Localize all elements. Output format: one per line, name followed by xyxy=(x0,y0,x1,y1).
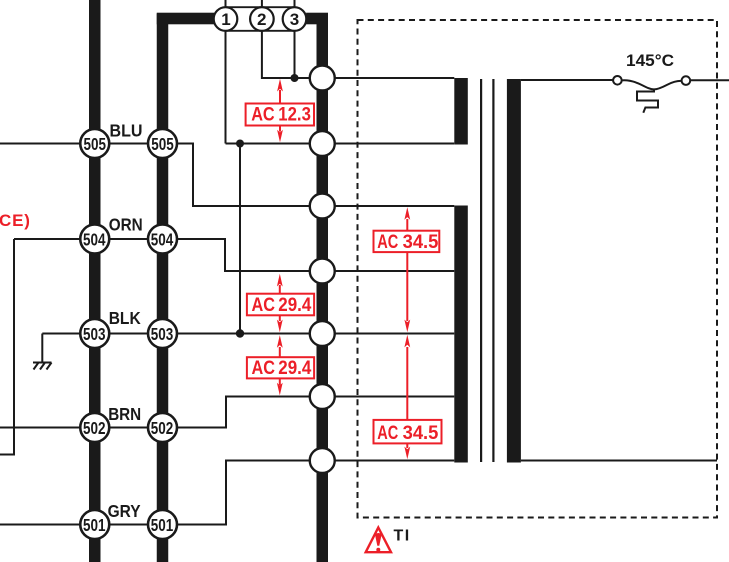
transformer T1 secondary bar xyxy=(507,79,521,463)
dashed box transformer T1 xyxy=(358,20,718,518)
wire GRY 501 row xyxy=(0,461,322,525)
ground stem xyxy=(41,334,43,363)
svg-text:505: 505 xyxy=(151,134,174,154)
node T1 pin row6 xyxy=(310,384,335,409)
node T1 pin row3 xyxy=(310,194,335,219)
terminal 504 on bus1 xyxy=(80,225,109,254)
voltage box AC 34.5 upper xyxy=(374,207,440,332)
transformer T1 primary bar top segment xyxy=(454,78,468,145)
voltage box AC 12.3 xyxy=(246,79,314,143)
svg-text:29.4: 29.4 xyxy=(278,294,311,316)
ground chassis hatching xyxy=(33,363,52,370)
bus line 2 xyxy=(157,14,169,562)
connector pin circle 1 xyxy=(214,7,238,31)
bus line 3 top corner xyxy=(306,13,328,25)
svg-text:3: 3 xyxy=(290,10,299,29)
svg-text:501: 501 xyxy=(83,515,106,535)
wire pin3 xyxy=(295,0,323,78)
svg-text:BLU: BLU xyxy=(110,121,143,141)
svg-text:29.4: 29.4 xyxy=(278,357,311,379)
voltage box AC 34.5 lower xyxy=(374,335,442,460)
wire tap row4 xyxy=(322,270,454,272)
svg-text:ORN: ORN xyxy=(109,214,143,234)
svg-text:CE): CE) xyxy=(0,211,31,230)
junction dot pins 2-3 xyxy=(291,74,299,82)
wire tap row2 xyxy=(322,143,454,145)
warning triangle T1 xyxy=(366,528,411,553)
terminal 505 on bus1 xyxy=(80,129,109,158)
svg-text:503: 503 xyxy=(83,324,106,344)
svg-text:2: 2 xyxy=(257,10,266,29)
node T1 pin row4 xyxy=(310,259,335,284)
svg-text:34.5: 34.5 xyxy=(403,231,439,253)
wire BLU 505 row xyxy=(0,144,322,207)
terminal 501 on bus1 xyxy=(80,510,109,539)
junction dot node x240 row2 xyxy=(236,140,244,148)
node T1 pin row1 xyxy=(310,66,335,91)
terminal 502 on bus2 xyxy=(148,413,177,442)
svg-text:34.5: 34.5 xyxy=(403,422,439,444)
svg-text:GRY: GRY xyxy=(108,501,141,521)
connector pin circle 3 xyxy=(283,7,307,31)
terminal 504 on bus2 xyxy=(148,225,177,254)
svg-text:1: 1 xyxy=(221,10,230,29)
connector pin circle 2 xyxy=(250,7,274,31)
wire tap row6 xyxy=(322,396,454,398)
svg-text:502: 502 xyxy=(83,418,106,438)
terminal 503 on bus2 xyxy=(148,319,177,348)
wire BRN 502 row xyxy=(0,397,322,428)
voltage box AC 29.4 lower xyxy=(247,335,314,395)
terminal 501 on bus2 xyxy=(148,510,177,539)
terminal 503 on bus1 xyxy=(80,319,109,348)
svg-text:AC: AC xyxy=(252,357,276,379)
transformer T1 primary bar lower segment xyxy=(454,206,468,463)
connector tangent lines xyxy=(226,7,295,31)
wire pin1 down to row2 xyxy=(226,0,323,144)
wire tap row1 xyxy=(322,77,454,79)
svg-text:AC: AC xyxy=(252,294,276,316)
svg-text:AC: AC xyxy=(377,231,398,253)
bus line 3 xyxy=(317,14,329,562)
junction dot node x240 row5 xyxy=(236,329,244,337)
wire node branch x=240 xyxy=(239,144,241,334)
voltage box AC 29.4 upper xyxy=(247,274,314,333)
node T1 pin row2 xyxy=(310,131,335,156)
bus line 2 top corner xyxy=(157,13,214,25)
wire BLK 503 row xyxy=(42,333,322,335)
thermal switch 145C xyxy=(613,76,690,113)
wire pin2 xyxy=(262,0,295,78)
svg-text:TI: TI xyxy=(394,528,411,545)
wire tap row7 bottom xyxy=(322,460,717,462)
node T1 pin row5 xyxy=(310,321,335,346)
wire ORN 504 row xyxy=(0,239,322,455)
svg-text:AC: AC xyxy=(251,104,275,126)
svg-text:504: 504 xyxy=(151,230,174,250)
wire tap row5 xyxy=(322,333,454,335)
svg-text:504: 504 xyxy=(83,230,106,250)
node T1 pin row7 xyxy=(310,448,335,473)
transformer core line 2 xyxy=(492,79,494,462)
bus line 1 xyxy=(89,0,101,562)
svg-text:BRN: BRN xyxy=(108,404,141,424)
svg-text:BLK: BLK xyxy=(109,308,141,328)
wire tap row3 xyxy=(322,205,454,207)
transformer core line 1 xyxy=(480,79,482,462)
terminal 502 on bus1 xyxy=(80,413,109,442)
wire secondary top to switch xyxy=(521,79,729,81)
svg-text:12.3: 12.3 xyxy=(278,104,311,126)
svg-text:503: 503 xyxy=(151,324,174,344)
terminal 505 on bus2 xyxy=(148,129,177,158)
svg-text:AC: AC xyxy=(377,422,398,444)
svg-text:501: 501 xyxy=(151,515,174,535)
svg-text:145°C: 145°C xyxy=(626,51,674,70)
svg-text:502: 502 xyxy=(151,418,174,438)
svg-text:505: 505 xyxy=(84,134,107,154)
